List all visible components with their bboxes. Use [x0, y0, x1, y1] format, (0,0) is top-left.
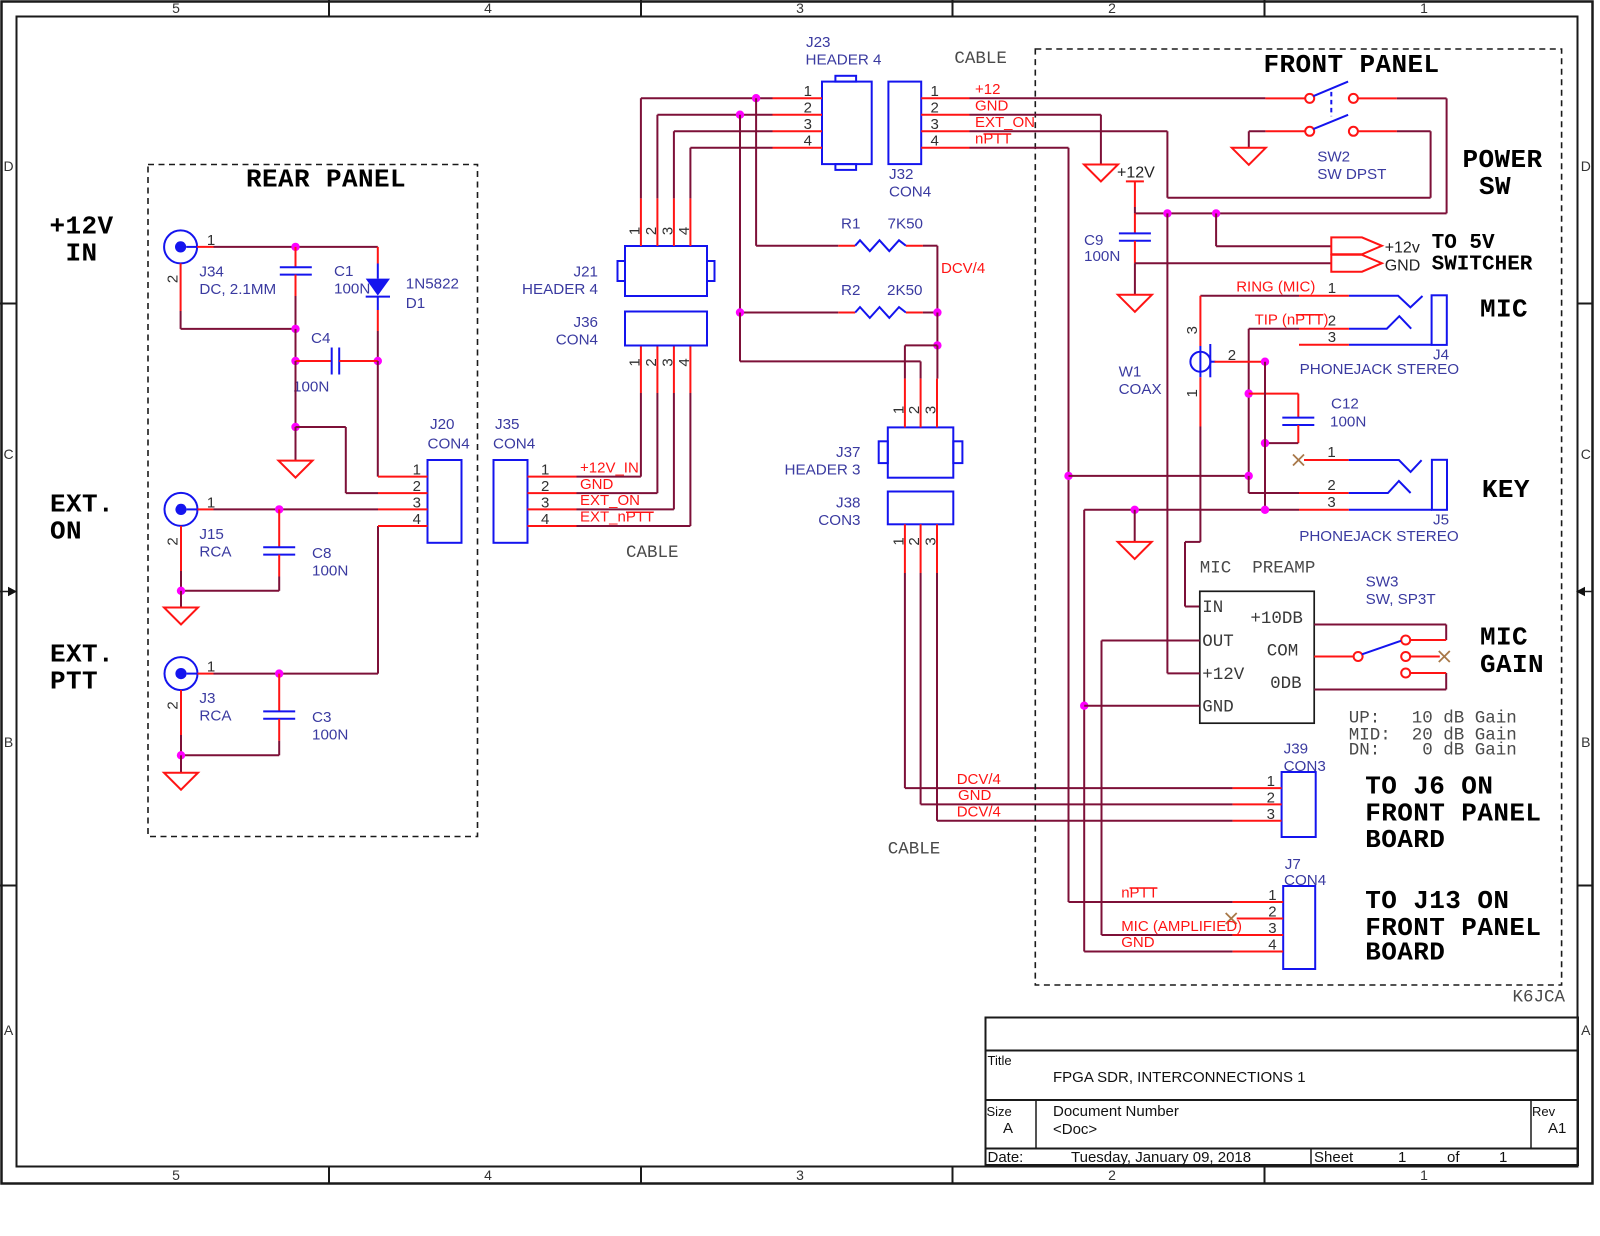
wire J37.3 to DCV/4 node [936, 345, 938, 378]
svg-text:EXT_ON: EXT_ON [975, 114, 1035, 131]
block MIC PREAMP [1200, 559, 1316, 724]
svg-text:CABLE: CABLE [888, 840, 941, 860]
pin 1 of W1 [1184, 377, 1201, 426]
svg-text:2: 2 [1228, 347, 1236, 364]
wire C3 bottom to J3.2 node [181, 735, 279, 755]
svg-text:D: D [1581, 158, 1591, 174]
svg-text:TO J6 ON: TO J6 ON [1365, 772, 1493, 802]
svg-text:GND: GND [580, 476, 614, 493]
wire net nPTT J32.4 down left column [970, 148, 1069, 902]
wire DCV/4 node down to J37 [936, 313, 938, 346]
wire W1.1 to preamp IN [1185, 427, 1200, 607]
svg-text:0DB: 0DB [1270, 674, 1302, 694]
junction R2 tap on pin2 net [736, 111, 744, 119]
wire down to C4 left node [295, 329, 297, 361]
label TO J13 ON FRONT PANEL BOARD [1365, 886, 1541, 968]
pin 1 of J32 [921, 83, 969, 100]
svg-text:2: 2 [1108, 0, 1116, 16]
wire preamp 0DB to SW3 [1314, 673, 1446, 690]
svg-text:GAIN: GAIN [1480, 650, 1544, 680]
junction R1 tap on pin1 net [752, 94, 760, 102]
pin 2 of W1 [1215, 347, 1266, 364]
sheet centering arrow left [0, 587, 17, 597]
connector J5 PHONEJACK STEREO [1299, 460, 1459, 545]
svg-text:2: 2 [1327, 477, 1335, 494]
svg-text:RING (MIC): RING (MIC) [1236, 279, 1315, 296]
svg-text:C12: C12 [1331, 396, 1359, 413]
svg-text:CON4: CON4 [889, 184, 931, 201]
svg-text:2: 2 [165, 275, 182, 283]
resistor R2 2K50 [740, 115, 937, 318]
svg-text:A1: A1 [1548, 1120, 1566, 1137]
svg-text:MIC PREAMP: MIC PREAMP [1200, 559, 1316, 579]
title block [986, 1018, 1579, 1167]
wire preamp +10DB to SW3 [1314, 625, 1446, 641]
svg-text:TIP (nPTT): TIP (nPTT) [1255, 311, 1329, 328]
svg-text:SWITCHER: SWITCHER [1432, 254, 1533, 277]
diode D1 1N5822 [366, 264, 459, 332]
pin 3 of J39 [1233, 806, 1282, 823]
wire GND to J37.2 [740, 313, 921, 379]
svg-text:1: 1 [1267, 773, 1275, 790]
ground symbol J15 [164, 591, 198, 625]
connector J36 CON4 [556, 312, 707, 349]
svg-text:of: of [1447, 1149, 1460, 1166]
ground symbol C9 [1118, 295, 1152, 312]
svg-text:+12V: +12V [1202, 665, 1245, 685]
junction W1.2 node [1261, 358, 1269, 366]
wire GND column down [1083, 510, 1085, 952]
connector J37 HEADER 3 [785, 427, 963, 478]
svg-text:CON4: CON4 [493, 436, 535, 453]
svg-text:J3: J3 [199, 690, 215, 707]
junction GND row / J5 sleeve [1261, 506, 1269, 514]
svg-text:PHONEJACK STEREO: PHONEJACK STEREO [1299, 528, 1459, 545]
svg-text:CON4: CON4 [428, 436, 470, 453]
capacitor C9 100N [1084, 213, 1151, 265]
junction J34.2 rail / C1 [291, 325, 299, 333]
wire J38.2 to J39.2 net GND [921, 573, 1233, 804]
svg-text:CON4: CON4 [556, 332, 598, 349]
svg-text:D: D [3, 158, 13, 174]
junction TIP row right [1245, 472, 1253, 480]
svg-text:GND: GND [958, 787, 992, 804]
svg-text:3: 3 [659, 227, 676, 235]
svg-text:2: 2 [643, 358, 660, 366]
svg-text:CON3: CON3 [818, 512, 860, 529]
junction C4 right [374, 357, 382, 365]
junction J37 pins node [933, 341, 941, 349]
svg-text:C8: C8 [312, 545, 331, 562]
svg-text:KEY: KEY [1482, 475, 1530, 505]
svg-text:J35: J35 [495, 416, 520, 433]
svg-text:2: 2 [1267, 790, 1275, 807]
wire net GND J32.2 to ground [970, 115, 1101, 165]
pin 3 of J35 [528, 495, 577, 512]
power symbol +12V [1117, 165, 1155, 214]
svg-text:3: 3 [659, 358, 676, 366]
svg-text:DCV/4: DCV/4 [941, 260, 985, 277]
switch SW2 pole B [1265, 115, 1397, 183]
svg-text:+12V_IN: +12V_IN [580, 459, 639, 476]
pin numbers of J36 [626, 358, 693, 366]
pin 3 of J32 [921, 116, 969, 133]
svg-text:GND: GND [1385, 257, 1421, 274]
wire TIP row [1069, 475, 1249, 477]
svg-text:R1: R1 [841, 216, 860, 233]
zone numbers top [172, 0, 1428, 16]
svg-text:DC, 2.1MM: DC, 2.1MM [199, 281, 276, 298]
FRONT PANEL dashed box [1035, 49, 1561, 985]
svg-text:J23: J23 [806, 34, 831, 51]
svg-text:B: B [1581, 734, 1590, 750]
svg-text:J34: J34 [199, 264, 224, 281]
label EXT. PTT [50, 640, 114, 697]
svg-text:2K50: 2K50 [887, 282, 922, 299]
svg-text:3: 3 [931, 116, 939, 133]
svg-text:1: 1 [1499, 1149, 1507, 1166]
gain table [1349, 708, 1517, 760]
connector J34 DC, 2.1MM [164, 230, 276, 298]
svg-text:Document Number: Document Number [1053, 1103, 1179, 1120]
svg-text:3: 3 [923, 537, 940, 545]
svg-text:CABLE: CABLE [954, 49, 1007, 69]
svg-text:3: 3 [1184, 326, 1201, 334]
svg-text:J7: J7 [1285, 856, 1301, 873]
wire preamp COM to SW3 [1314, 656, 1353, 658]
wire net EXT_ON J32.3 to SW2 pole B [970, 131, 1431, 198]
wire ground node to J20.2 [296, 427, 379, 493]
wire J21.4 to J23.4 [690, 148, 772, 199]
svg-text:3: 3 [1268, 920, 1276, 937]
wire J38.3 to J39.3 net DCV/4 [937, 573, 1233, 821]
ground symbol SW2 [1232, 148, 1266, 165]
svg-text:3: 3 [804, 116, 812, 133]
svg-text:C1: C1 [334, 263, 353, 280]
svg-text:2: 2 [1328, 313, 1336, 330]
svg-text:COM: COM [1267, 642, 1299, 662]
svg-text:SW3: SW3 [1366, 574, 1399, 591]
svg-text:J21: J21 [574, 264, 599, 281]
no-connect X on J5.1 [1293, 455, 1304, 466]
wire net EXT_ON J35.3 to J36.3 [577, 346, 674, 510]
no-connect X on J7.2 [1226, 913, 1237, 924]
wire D1 cathode down to C4 right node [377, 331, 379, 361]
svg-text:CON3: CON3 [1284, 758, 1326, 775]
pin 3 of J38 [923, 524, 940, 573]
svg-text:1: 1 [1184, 389, 1201, 397]
connector J23 HEADER 4 [806, 34, 882, 170]
svg-text:<Doc>: <Doc> [1053, 1121, 1097, 1138]
wire C9 bottom ground [1134, 263, 1136, 295]
capacitor C3 100N [263, 674, 348, 744]
svg-text:1: 1 [890, 537, 907, 545]
label TO J6 ON FRONT PANEL BOARD [1365, 772, 1541, 855]
svg-text:GND: GND [1121, 934, 1155, 951]
junction C12 bottom [1261, 439, 1269, 447]
wire preamp GND pin [1084, 705, 1200, 707]
svg-text:C3: C3 [312, 709, 331, 726]
svg-text:Title: Title [988, 1053, 1012, 1068]
svg-text:J15: J15 [199, 526, 224, 543]
svg-text:FRONT PANEL: FRONT PANEL [1263, 50, 1439, 80]
svg-text:2: 2 [906, 406, 923, 414]
svg-text:+12v: +12v [1385, 239, 1420, 256]
pin 3 of J7 [1233, 920, 1284, 937]
junction J3.1 / C3 [275, 669, 283, 677]
svg-text:GND: GND [975, 98, 1009, 115]
svg-text:COAX: COAX [1119, 381, 1162, 398]
ground symbol GND net [1084, 165, 1118, 182]
svg-text:HEADER 3: HEADER 3 [785, 462, 861, 479]
wire C1 bottom to pin2 rail [295, 296, 297, 329]
svg-text:Date:: Date: [988, 1149, 1024, 1166]
svg-text:2: 2 [906, 537, 923, 545]
label MIC GAIN [1480, 622, 1544, 679]
svg-text:A: A [4, 1022, 14, 1038]
pin 2 of J38 [906, 524, 923, 573]
zone letters left [3, 158, 13, 1038]
wire W1.2 down to GND row [1264, 362, 1266, 510]
pin 2 of J15 [165, 526, 182, 571]
connector J32 CON4 [888, 82, 931, 201]
svg-text:FPGA SDR, INTERCONNECTIONS 1: FPGA SDR, INTERCONNECTIONS 1 [1053, 1069, 1306, 1086]
svg-text:SW, SP3T: SW, SP3T [1366, 591, 1436, 608]
svg-text:+12V: +12V [1117, 165, 1155, 182]
svg-text:Rev: Rev [1532, 1104, 1556, 1119]
off-page arrow +12v [1331, 237, 1382, 254]
wire net +12 J32.1 to SW2 pole A [970, 97, 1266, 99]
svg-text:2: 2 [413, 478, 421, 495]
svg-text:J36: J36 [574, 314, 599, 331]
svg-text:ON: ON [50, 517, 82, 547]
wire net MIC (AMPLIFIED) to J7.3 [1102, 918, 1243, 935]
svg-text:+12: +12 [975, 81, 1000, 98]
svg-text:2: 2 [931, 100, 939, 117]
wire J21.3 to J23.3 [674, 131, 773, 198]
pin 1 of J3 [198, 658, 216, 675]
wire J37.1 to DCV/4 node [905, 345, 938, 378]
svg-text:CABLE: CABLE [626, 543, 679, 563]
pin 3 of J5 [1299, 494, 1349, 511]
connector J15 RCA [165, 493, 233, 561]
svg-text:100N: 100N [293, 379, 329, 396]
net label nPTT with overbar [975, 131, 1012, 148]
svg-text:100N: 100N [334, 281, 370, 298]
svg-text:POWER: POWER [1462, 145, 1542, 175]
svg-text:+12V: +12V [49, 212, 113, 242]
svg-text:4: 4 [804, 133, 812, 150]
wire +12v feed to switcher arrow [1216, 213, 1331, 246]
pin 2 of J7 with no-connect [1237, 904, 1284, 921]
pin 1 of J35 [528, 462, 577, 479]
svg-text:J32: J32 [889, 166, 914, 183]
pin 2 of J3 [165, 690, 182, 735]
wire C4 left node down to ground junction [295, 361, 297, 427]
svg-text:BOARD: BOARD [1365, 938, 1445, 968]
svg-text:J39: J39 [1284, 741, 1309, 758]
svg-text:J38: J38 [836, 495, 861, 512]
svg-text:C: C [1581, 446, 1591, 462]
ground symbol rear panel main [279, 427, 313, 478]
wire R1 right down to DCV/4 node [936, 246, 938, 313]
svg-text:3: 3 [796, 1167, 804, 1183]
connector J21 HEADER 4 [522, 246, 714, 298]
label POWER SW [1462, 145, 1542, 202]
junction +12V rail / switcher feed [1212, 209, 1220, 217]
pin 4 of J23 [773, 133, 823, 150]
svg-text:3: 3 [1267, 806, 1275, 823]
wire net EXT_nPTT J35.4 to J36.4 [577, 346, 691, 527]
svg-text:5: 5 [172, 1167, 180, 1183]
wire J21.1 to J23.1 [641, 98, 773, 198]
svg-text:4: 4 [676, 358, 693, 366]
junction C12 tap [1245, 389, 1253, 397]
svg-text:1: 1 [1398, 1149, 1406, 1166]
svg-text:REAR PANEL: REAR PANEL [246, 165, 406, 195]
junction J15.2 ground [177, 587, 185, 595]
svg-text:4: 4 [676, 227, 693, 235]
svg-text:D1: D1 [406, 295, 425, 312]
wire net +12V_IN J35.1 to J36.1 [577, 346, 641, 477]
svg-text:SW2: SW2 [1317, 149, 1350, 166]
svg-text:2: 2 [1268, 904, 1276, 921]
svg-text:EXT.: EXT. [50, 490, 114, 520]
svg-text:B: B [4, 734, 13, 750]
ground symbol J3 [164, 755, 198, 789]
zone numbers bottom [172, 1167, 1428, 1183]
off-page arrow GND [1331, 255, 1382, 272]
svg-text:OUT: OUT [1202, 632, 1234, 652]
junction at C1 top [291, 243, 299, 251]
connector J38 CON3 [818, 492, 953, 530]
svg-text:DCV/4: DCV/4 [957, 804, 1001, 821]
svg-text:A: A [1003, 1120, 1013, 1137]
label +12V IN [49, 212, 113, 269]
svg-text:4: 4 [413, 511, 421, 528]
svg-text:HEADER 4: HEADER 4 [806, 52, 882, 69]
svg-text:C4: C4 [311, 330, 330, 347]
svg-text:1: 1 [890, 406, 907, 414]
svg-text:CON4: CON4 [1284, 872, 1326, 889]
svg-text:100N: 100N [312, 727, 348, 744]
svg-text:3: 3 [1328, 329, 1336, 346]
svg-text:1: 1 [1327, 444, 1335, 461]
svg-text:TO J13 ON: TO J13 ON [1365, 886, 1509, 916]
svg-text:100N: 100N [1330, 414, 1366, 431]
svg-text:BOARD: BOARD [1365, 825, 1445, 855]
svg-text:2: 2 [1108, 1167, 1116, 1183]
junction ground node [291, 423, 299, 431]
junction DCV/4 node [933, 308, 941, 316]
svg-text:W1: W1 [1119, 364, 1142, 381]
pin 1 of J15 [198, 494, 216, 511]
wire +12V rail to preamp [1167, 213, 1199, 673]
pin 3 of J20 [378, 495, 428, 512]
wire D1 node down to J20.1 [377, 361, 379, 477]
svg-text:Size: Size [987, 1104, 1012, 1119]
wire preamp OUT to MIC (AMPLIFIED) column [1102, 641, 1200, 936]
svg-text:4: 4 [1268, 937, 1276, 954]
wire J34.1 to C1/D1 node [214, 247, 378, 264]
wire J34.2 rail [181, 311, 296, 329]
capacitor C4 100N [293, 330, 378, 396]
pin 1 of J23 [773, 83, 823, 100]
wire SW2 pole A out to +12V rail [1135, 98, 1447, 213]
wire SW2 pole B left to ground [1249, 131, 1431, 148]
svg-text:3: 3 [923, 406, 940, 414]
svg-text:SW DPST: SW DPST [1317, 166, 1386, 183]
pin 3 of J37 [923, 379, 940, 428]
svg-text:1: 1 [1268, 887, 1276, 904]
svg-text:3: 3 [541, 495, 549, 512]
svg-text:EXT_ON: EXT_ON [580, 492, 640, 509]
svg-text:A: A [1581, 1022, 1591, 1038]
svg-text:4: 4 [484, 1167, 492, 1183]
svg-text:R2: R2 [841, 282, 860, 299]
wire TIP net vertical [1249, 329, 1299, 476]
svg-text:DN: 0 dB Gain: DN: 0 dB Gain [1349, 740, 1517, 760]
svg-text:PHONEJACK STEREO: PHONEJACK STEREO [1300, 361, 1460, 378]
svg-text:GND: GND [1202, 697, 1234, 717]
coax W1 [1119, 296, 1216, 398]
svg-text:J37: J37 [836, 444, 861, 461]
svg-text:3: 3 [413, 495, 421, 512]
svg-text:5: 5 [172, 0, 180, 16]
switch SW2 SW DPST pole A [1265, 82, 1397, 103]
svg-text:7K50: 7K50 [888, 216, 923, 233]
wire GND row [1084, 509, 1299, 511]
svg-text:HEADER 4: HEADER 4 [522, 281, 598, 298]
pin 2 of J23 [773, 100, 823, 117]
svg-text:2: 2 [165, 701, 182, 709]
pin 4 of J32 [921, 133, 969, 150]
connector J4 PHONEJACK STEREO [1300, 295, 1460, 378]
svg-text:3: 3 [796, 0, 804, 16]
svg-text:Sheet: Sheet [1314, 1149, 1354, 1166]
wire J38.1 to J39.1 net DCV/4 [905, 573, 1233, 788]
zone letters right [1581, 158, 1591, 1038]
junction J3.2 ground [177, 751, 185, 759]
svg-text:2: 2 [165, 537, 182, 545]
pin 4 of J7 [1233, 937, 1284, 954]
SW2 link dashed [1330, 92, 1332, 116]
pin 3 of J4 [1299, 329, 1349, 346]
wire net GND J35.2 to J36.2 [577, 346, 658, 494]
svg-text:4: 4 [931, 133, 939, 150]
svg-text:EXT.: EXT. [50, 640, 114, 670]
pin 2 of J39 [1233, 790, 1282, 807]
svg-text:2: 2 [643, 227, 660, 235]
svg-text:RCA: RCA [199, 544, 232, 561]
svg-text:C9: C9 [1084, 232, 1103, 249]
wire J21.2 to J23.2 [657, 115, 772, 199]
pin 1 of J21 [626, 198, 643, 246]
wire C8 bottom to J15.2 node [181, 571, 279, 591]
svg-text:4: 4 [541, 511, 549, 528]
no-connect X on SW3 mid [1439, 651, 1450, 662]
svg-text:SW: SW [1479, 172, 1511, 202]
pin 1 of J7 [1233, 887, 1284, 904]
svg-text:1: 1 [1420, 0, 1428, 16]
junction J15.1 / C8 [275, 505, 283, 513]
connector J20 CON4 [428, 416, 470, 543]
pin 2 of J21 [643, 198, 660, 246]
svg-text:1: 1 [626, 358, 643, 366]
svg-text:1: 1 [1420, 1167, 1428, 1183]
svg-text:2: 2 [804, 100, 812, 117]
svg-text:1: 1 [626, 227, 643, 235]
